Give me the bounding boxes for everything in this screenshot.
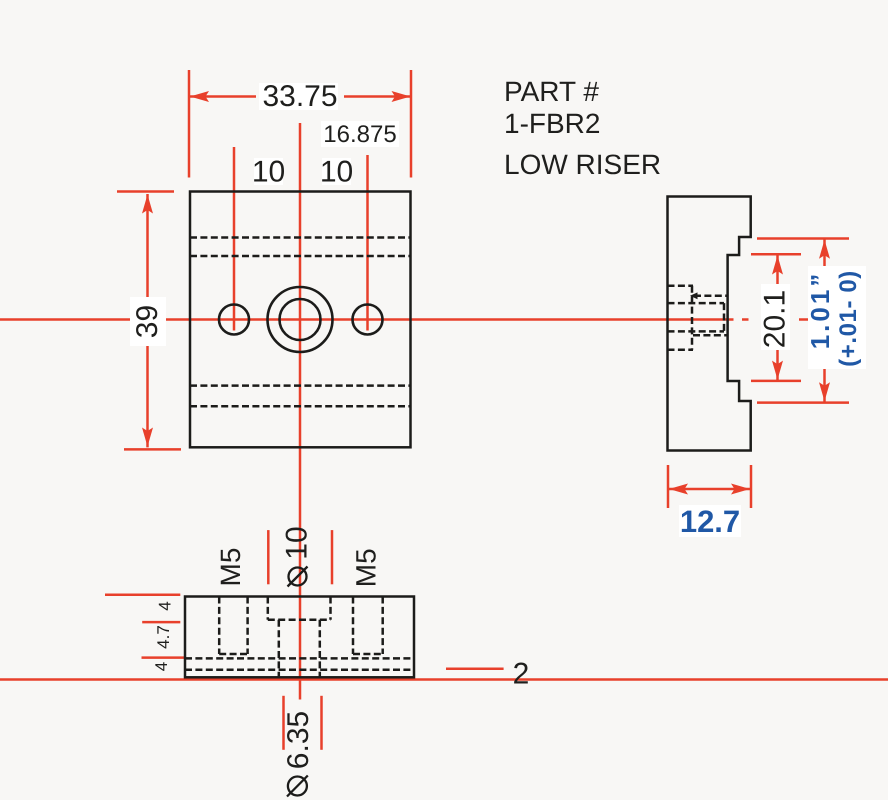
- wire left hole centerline: [233, 147, 236, 331]
- svg-text:M5: M5: [215, 548, 246, 587]
- dim 20.1 arrows: [772, 256, 783, 275]
- dim 33.75 extension lines: [188, 70, 191, 178]
- dim 12.7 arrows: [669, 484, 688, 495]
- hole left: [219, 305, 249, 335]
- dim 39 arrows: [142, 195, 153, 214]
- bottom view left ticks 4 / 4.7 / 4: [105, 594, 180, 597]
- wire vertical centerline front/bottom: [299, 123, 302, 700]
- dim 1.01 ticks: [757, 237, 849, 240]
- svg-text:33.75: 33.75: [262, 80, 337, 113]
- leader for 2: [446, 667, 504, 670]
- svg-text:4: 4: [156, 601, 175, 610]
- dim 20.1 dimension line: [776, 254, 779, 284]
- long red baseline: [0, 678, 888, 681]
- hole center counterbore: [268, 287, 333, 352]
- dim 12.7 extension lines: [667, 465, 670, 508]
- dimension texts: [131, 80, 792, 769]
- wire horizontal centerline main: [0, 318, 130, 321]
- svg-text:1.01”: 1.01”: [805, 271, 835, 350]
- dim 1.01 arrows: [819, 240, 830, 259]
- dim 1.01 dimension line: [823, 239, 826, 267]
- dim dia6.35 ticks: [282, 696, 285, 750]
- side view outline: [668, 197, 751, 451]
- blue dimension texts: [680, 270, 862, 539]
- dim 33.75 dimension line: [189, 95, 256, 98]
- svg-text:12.7: 12.7: [680, 504, 740, 539]
- svg-text:2: 2: [513, 658, 530, 691]
- white text boxes: [130, 83, 866, 537]
- svg-text:PART #: PART #: [504, 76, 599, 107]
- svg-text:M5: M5: [351, 548, 382, 587]
- svg-text:16.875: 16.875: [323, 121, 396, 148]
- diameter symbol for 10: [288, 567, 308, 587]
- part number text: [504, 76, 661, 180]
- svg-text:4: 4: [152, 662, 171, 671]
- wire right hole centerline: [366, 155, 369, 331]
- bottom view outline: [185, 597, 414, 678]
- dim 39 ticks: [117, 190, 174, 193]
- black arrow in side view: [690, 292, 698, 299]
- svg-text:39: 39: [131, 305, 164, 338]
- side view hidden hole lines: [668, 286, 728, 350]
- svg-text:10: 10: [281, 526, 314, 559]
- svg-text:10: 10: [252, 156, 285, 189]
- dim 33.75 arrows: [190, 91, 209, 102]
- dim 12.7 dimension line: [668, 488, 751, 491]
- svg-text:1-FBR2: 1-FBR2: [504, 108, 600, 139]
- hole right: [353, 305, 383, 335]
- svg-text:LOW RISER: LOW RISER: [504, 149, 661, 180]
- dim 39 dimension line: [146, 194, 149, 297]
- front view outline: [190, 192, 411, 448]
- svg-text:(+.01- 0): (+.01- 0): [835, 270, 862, 367]
- front view hidden lines: [190, 238, 411, 407]
- svg-text:6.35: 6.35: [282, 711, 315, 769]
- dim dia10 ticks: [267, 530, 270, 584]
- svg-text:4.7: 4.7: [154, 625, 173, 649]
- diameter symbol for 6.35: [287, 776, 308, 797]
- svg-text:10: 10: [320, 156, 353, 189]
- labels 4 / 4.7 / 4: [152, 601, 175, 671]
- bottom view hidden lines: [185, 597, 414, 678]
- svg-text:20.1: 20.1: [759, 290, 792, 348]
- dim 20.1 ticks: [751, 253, 801, 256]
